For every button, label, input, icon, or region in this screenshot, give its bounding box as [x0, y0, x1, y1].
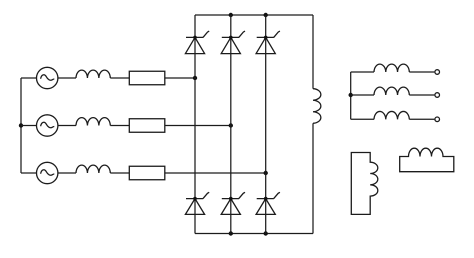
node phase C junction	[264, 171, 268, 175]
wire inductor Lc to terminal c	[409, 118, 434, 120]
wire inductor Lb to terminal b	[409, 94, 434, 96]
wire bus to source VB	[21, 125, 37, 127]
wire resistor RB to bridge leg 2	[165, 125, 231, 127]
inductor Ldc	[313, 89, 321, 124]
thyristor T6	[221, 192, 245, 214]
node bottom bus leg3 junction	[264, 231, 268, 235]
inductor La	[374, 64, 409, 72]
wire top dc bus	[195, 14, 313, 16]
wire load bus to inductor Lb	[351, 94, 374, 96]
wire inductor LA to resistor RA	[110, 77, 129, 79]
inductor LC	[76, 165, 110, 173]
wire resistor RA to bridge leg 1	[165, 77, 195, 79]
wire inductor LC to resistor RC	[110, 172, 129, 174]
wire bridge leg 2 vertical	[230, 15, 232, 234]
node top bus leg3 junction	[264, 13, 268, 17]
inductor LA	[76, 70, 110, 78]
wire source VC to inductor LC	[58, 172, 76, 174]
wire load bus to inductor Lc	[351, 118, 374, 120]
ac source VC	[37, 162, 58, 183]
inductor Lc	[374, 111, 409, 119]
ac source VA	[37, 67, 58, 88]
wire bridge leg 1 vertical	[194, 15, 196, 234]
inductor Lb	[374, 87, 409, 95]
node neutral junction on source bus	[19, 123, 23, 127]
winding W1 vertical	[351, 153, 378, 215]
thyristor T1	[185, 31, 209, 53]
wire inductor LB to resistor RB	[110, 125, 129, 127]
terminal b	[435, 93, 440, 98]
node load bus junction	[349, 93, 353, 97]
node phase B junction	[229, 123, 233, 127]
terminal a	[435, 70, 440, 75]
node phase A junction	[193, 76, 197, 80]
resistor RC	[129, 166, 165, 180]
wire bridge leg 3 vertical	[265, 15, 267, 234]
thyristor T4	[185, 192, 209, 214]
thyristor T3	[221, 31, 245, 53]
wire source VA to inductor LA	[58, 77, 76, 79]
winding W2 horizontal	[400, 148, 454, 172]
wire resistor RC to bridge leg 3	[165, 172, 266, 174]
node top bus leg2 junction	[229, 13, 233, 17]
thyristor T2	[256, 192, 280, 214]
resistor RB	[129, 119, 165, 133]
wire dc link bottom	[312, 123, 314, 233]
wire inductor La to terminal a	[409, 71, 434, 73]
wire bus to source VC	[21, 172, 37, 174]
wire dc link top	[312, 15, 314, 89]
wire source VB to inductor LB	[58, 125, 76, 127]
wire load bus vertical	[350, 72, 352, 119]
ac source VB	[37, 115, 58, 136]
wire bottom dc bus	[195, 233, 313, 235]
terminal c	[435, 117, 440, 122]
wire bus to source VA	[21, 77, 37, 79]
wire load bus to inductor La	[351, 71, 374, 73]
node bottom bus leg2 junction	[229, 231, 233, 235]
resistor RA	[129, 71, 165, 85]
thyristor T5	[256, 31, 280, 53]
wire left source bus vertical	[20, 78, 22, 173]
inductor LB	[76, 118, 110, 126]
